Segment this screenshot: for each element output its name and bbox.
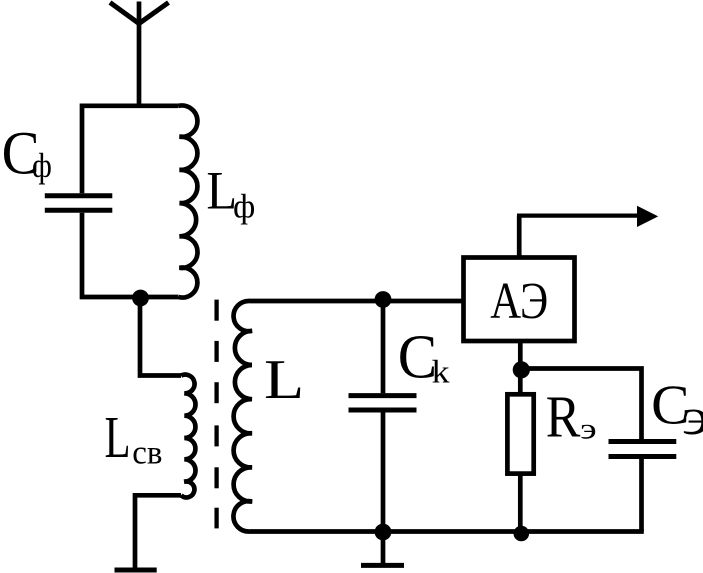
svg-text:э: э xyxy=(682,389,703,446)
svg-text:L: L xyxy=(264,349,304,411)
svg-text:ф: ф xyxy=(32,146,52,185)
svg-text:ф: ф xyxy=(233,188,255,225)
svg-text:L: L xyxy=(105,405,131,470)
svg-text:св: св xyxy=(132,435,162,472)
svg-text:э: э xyxy=(580,413,597,446)
svg-text:R: R xyxy=(546,383,581,449)
svg-text:k: k xyxy=(432,354,450,391)
svg-text:АЭ: АЭ xyxy=(490,273,548,330)
